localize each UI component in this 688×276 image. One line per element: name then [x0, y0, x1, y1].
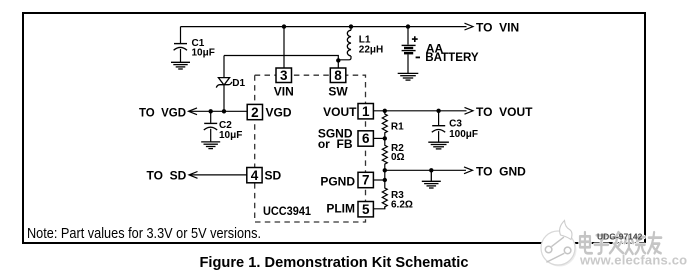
junction dot (SW node): [336, 58, 340, 62]
svg-text:PLIM: PLIM: [326, 202, 355, 216]
pin 8 box (SW): [328, 68, 348, 98]
pin 4 box (SD): [247, 168, 282, 184]
battery AA: [402, 27, 479, 74]
pin 1 box (VOUT): [323, 104, 373, 119]
svg-text:3: 3: [280, 68, 288, 83]
svg-text:Figure 1. Demonstration Kit Sc: Figure 1. Demonstration Kit Schematic: [200, 254, 469, 271]
junction dot (R1 top / VOUT rail): [383, 109, 387, 113]
junction dot (L1 top / top rail): [349, 24, 353, 28]
svg-text:or FB: or FB: [318, 137, 353, 151]
svg-text:UDG-97142: UDG-97142: [597, 232, 643, 242]
wire GND rail: [385, 169, 466, 171]
inductor L1 22uH: [338, 27, 383, 60]
svg-text:TO SD: TO SD: [147, 168, 187, 182]
svg-text:TO VGD: TO VGD: [139, 105, 186, 119]
svg-text:4: 4: [251, 168, 259, 183]
capacitor C3 100uF: [432, 111, 478, 142]
svg-text:www.elecfans.com: www.elecfans.com: [579, 253, 688, 268]
ground (GND rail): [422, 170, 441, 188]
diode D1 (zener): [216, 56, 245, 112]
svg-text:R1: R1: [391, 122, 404, 133]
ground (below C1): [171, 62, 190, 69]
svg-text:VGD: VGD: [266, 105, 292, 119]
wire VOUT rail: [373, 110, 466, 112]
resistor R3 6.2 ohm: [382, 170, 413, 210]
pin 2 box (VGD): [247, 104, 292, 120]
wire pin 6 stub: [373, 137, 384, 139]
resistor R2 0 ohm: [382, 138, 404, 170]
node TO VGD: [139, 105, 197, 119]
watermark logo (elecfans): [541, 221, 577, 267]
svg-text:TO VOUT: TO VOUT: [476, 105, 533, 119]
junction dot (VIN drop / top rail): [282, 24, 286, 28]
svg-text:8: 8: [334, 68, 342, 83]
IC UCC3941 dashed outline: [255, 75, 366, 222]
node TO VOUT: [465, 105, 534, 119]
junction dot (ground tap on GND rail): [429, 168, 433, 172]
ground (below battery): [398, 73, 419, 80]
capacitor C1 10uF: [174, 27, 215, 62]
svg-text:6.2Ω: 6.2Ω: [391, 199, 413, 210]
junction dot (pin 6 / R1-R2): [383, 136, 387, 140]
svg-text:10μF: 10μF: [219, 130, 242, 141]
pin 6 box (SGND or FB): [318, 127, 374, 152]
svg-text:PGND: PGND: [320, 175, 355, 189]
wire SD rail: [191, 174, 247, 176]
junction dot (D1 on VGD rail): [222, 109, 226, 113]
svg-text:100μF: 100μF: [449, 129, 478, 140]
svg-text:7: 7: [362, 173, 370, 188]
svg-text:SW: SW: [328, 84, 348, 98]
wire top rail (VIN net): [181, 26, 467, 28]
node TO VIN: [465, 21, 520, 35]
svg-text:Note: Part values for 3.3V or: Note: Part values for 3.3V or 5V version…: [27, 226, 261, 242]
pin 5 box (PLIM): [326, 202, 373, 217]
ground (below C2): [201, 142, 220, 149]
junction dot (TO GND rail / R2): [383, 168, 387, 172]
pin 3 box (VIN): [274, 68, 294, 98]
junction dot (C3 / VOUT rail): [436, 109, 440, 113]
svg-text:TO GND: TO GND: [476, 164, 526, 178]
watermark text 电子发烧友: [580, 232, 661, 254]
wire VIN pin drop: [283, 27, 285, 68]
wire pin 5 stub: [373, 207, 384, 209]
wire pin 7 stub: [373, 179, 384, 181]
node TO GND: [464, 164, 526, 178]
resistor R1: [382, 111, 404, 139]
svg-text:VOUT: VOUT: [323, 105, 357, 119]
svg-text:2: 2: [251, 105, 259, 120]
junction dot (battery / top rail): [406, 24, 410, 28]
svg-text:D1: D1: [232, 78, 245, 89]
junction dot (C2 tap on VGD rail): [209, 109, 213, 113]
svg-text:22μH: 22μH: [359, 45, 383, 56]
pin 7 box (PGND): [320, 172, 373, 188]
wire VGD rail: [190, 110, 247, 112]
svg-text:BATTERY: BATTERY: [425, 50, 479, 64]
svg-text:TO VIN: TO VIN: [476, 21, 519, 35]
ground (below C3): [428, 142, 449, 149]
svg-text:10μF: 10μF: [192, 47, 215, 58]
svg-text:SD: SD: [265, 168, 282, 182]
svg-text:6: 6: [362, 131, 370, 146]
svg-text:5: 5: [362, 202, 370, 217]
svg-text:VIN: VIN: [274, 84, 294, 98]
node TO SD: [147, 168, 198, 182]
svg-text:1: 1: [362, 104, 370, 119]
wire SW node (D1 to pin 8): [224, 56, 338, 69]
capacitor C2 10uF: [204, 111, 243, 141]
junction dot (pin 7 / R chain): [383, 178, 387, 182]
svg-text:UCC3941: UCC3941: [263, 206, 312, 218]
svg-text:0Ω: 0Ω: [391, 152, 405, 163]
